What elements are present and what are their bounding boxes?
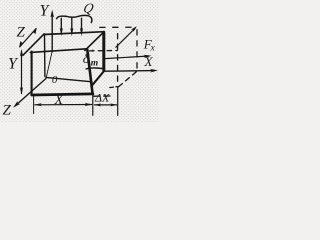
cube front-right edge [87, 50, 92, 94]
Y dimension line [21, 51, 23, 94]
Fx arrowhead [144, 55, 152, 58]
dX dim arrowhead right [110, 103, 117, 106]
deformed edge arrowhead [131, 26, 137, 31]
svg-text:Z: Z [3, 103, 12, 119]
svg-text:m: m [91, 58, 98, 68]
dashed deformed bottom-right receding edge [119, 72, 137, 87]
Y dim arrowhead bottom [20, 87, 23, 95]
X axis arrowhead [150, 69, 158, 73]
dX dimension line [95, 104, 117, 106]
svg-text:ΔX: ΔX [94, 91, 110, 105]
Z dimension line [20, 29, 36, 47]
svg-text:Z: Z [17, 25, 26, 41]
dX dimension extension line [117, 87, 119, 116]
cube front-left edge [31, 52, 33, 96]
dashed deformed bottom corner link [110, 87, 118, 88]
label delta-m underline swoosh [86, 67, 103, 70]
load arrow 3 head [80, 28, 83, 37]
load arrow 2 head [70, 28, 73, 37]
svg-text:δ: δ [83, 52, 90, 67]
cube back-right edge [102, 32, 105, 70]
Y dim arrowhead top [20, 49, 23, 57]
Y axis arrowhead [50, 10, 54, 18]
deformed top-right edge arrow line [116, 28, 135, 47]
load arrow 2 stem [71, 18, 73, 30]
svg-text:X: X [144, 54, 154, 69]
load arrow 1 head [60, 28, 63, 37]
X dimension extension line left [33, 97, 35, 114]
X dimension extension line right [92, 95, 94, 116]
svg-text:X: X [54, 93, 64, 108]
dashed deformed front-top edge [90, 50, 118, 52]
cube top-right receding edge [85, 32, 104, 51]
cube back-top edge [44, 32, 104, 35]
cube top-left receding edge [23, 34, 44, 55]
Z axis line [16, 79, 47, 106]
Z axis arrowhead [13, 101, 20, 108]
dX dim arrowhead left [94, 103, 101, 106]
dashed deformed front-bottom edge [94, 95, 110, 97]
Y axis line [51, 14, 53, 52]
load arrow 1 stem [60, 18, 62, 30]
Y axis inner segment to origin [46, 52, 52, 77]
dashed deformed back-top edge [100, 26, 135, 28]
X axis line [104, 70, 155, 73]
X dimension line [35, 104, 92, 106]
cube front-bottom edge [32, 94, 93, 95]
Z dim arrowhead lower [19, 41, 24, 48]
cube front-top edge [30, 49, 86, 53]
dashed deformed back-right edge [136, 30, 138, 72]
X dim arrowhead left [34, 103, 42, 106]
paper background [0, 0, 159, 122]
load arrow 3 stem [81, 18, 83, 30]
cube hidden back-left edge [44, 34, 46, 76]
svg-text:x: x [150, 44, 156, 54]
X dim arrowhead right [85, 103, 93, 106]
Z dim arrowhead upper [32, 28, 37, 35]
svg-text:0: 0 [52, 74, 58, 86]
load line (distributed load Q) [57, 15, 92, 22]
cube bottom-right receding edge [91, 71, 104, 87]
Fx force arrow line [105, 56, 149, 59]
dashed deformed front-right edge [117, 34, 119, 87]
cube hidden back-bottom edge [46, 77, 92, 81]
